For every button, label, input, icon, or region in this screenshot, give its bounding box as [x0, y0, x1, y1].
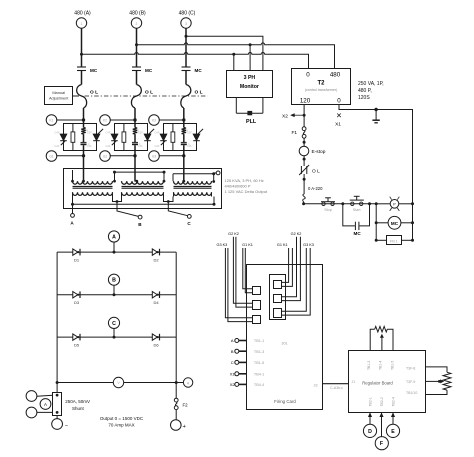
- 3 PH monitor box: [227, 71, 273, 98]
- overload element OL phase 1: [77, 85, 87, 109]
- wire G2 to bottom node: [110, 155, 135, 157]
- wire B stem: [113, 285, 115, 294]
- transformer T1 core 3: [174, 185, 212, 187]
- wire PLL left: [235, 97, 237, 113]
- svg-text:TB1-4: TB1-4: [379, 361, 383, 370]
- svg-text:B: B: [112, 278, 116, 284]
- svg-text:X2: X2: [282, 114, 288, 120]
- svg-text:G1 K1: G1 K1: [242, 243, 253, 247]
- wire left rail to shunt: [56, 383, 58, 393]
- wire bridge row C: [57, 336, 176, 338]
- wire shunt to negative terminal: [56, 415, 58, 419]
- wire E-stop to OL contact: [303, 156, 305, 166]
- svg-text:FN 1: FN 1: [390, 239, 398, 243]
- wire phase 3 drop from terminal: [185, 28, 187, 67]
- svg-text:G3 K3: G3 K3: [217, 243, 228, 247]
- svg-text:480 (A): 480 (A): [74, 11, 91, 17]
- wire MC coil row: [376, 222, 388, 224]
- wire phase 2 below SCR box: [134, 151, 136, 182]
- connector square left 3: [253, 316, 261, 324]
- wire T2 0 output to ground bus: [339, 105, 413, 241]
- svg-text:G1 K1: G1 K1: [277, 243, 288, 247]
- wire K3 to top node: [159, 119, 184, 121]
- wire pot wiper: [380, 335, 383, 351]
- node firing card input X2: [230, 382, 264, 387]
- node terminal C bridge input: [108, 317, 119, 328]
- wire ladder left rail: [375, 204, 377, 241]
- svg-text:G1: G1: [49, 155, 53, 159]
- svg-text:TB2-1: TB2-1: [368, 397, 372, 406]
- svg-text:Start: Start: [353, 208, 361, 212]
- label T2 specs: [358, 81, 384, 101]
- svg-text:0: 0: [337, 97, 341, 104]
- svg-text:K2: K2: [103, 119, 107, 123]
- node firing card input C: [231, 360, 264, 365]
- svg-text:D1: D1: [74, 258, 80, 263]
- svg-text:MC: MC: [195, 68, 203, 73]
- wire secondary output B: [117, 202, 138, 217]
- wire pot left post: [370, 329, 375, 351]
- svg-text:480 (C): 480 (C): [179, 11, 196, 17]
- transformer T1 core 2: [122, 185, 164, 187]
- firing card box: [247, 265, 323, 410]
- node shunt sense top: [26, 391, 53, 402]
- label output rating: [100, 416, 144, 427]
- svg-text:TB1-3: TB1-3: [367, 361, 371, 370]
- svg-text:440/480/600 P: 440/480/600 P: [225, 184, 251, 189]
- resistor R1b on main line: [81, 128, 85, 135]
- wire G1 K1 cathode lead left: [245, 248, 252, 293]
- node G3 terminal circle: [149, 151, 160, 162]
- wire G1 K1 cathode lead right: [282, 248, 293, 286]
- svg-text:D2: D2: [153, 258, 159, 263]
- svg-text:Monitor: Monitor: [240, 84, 259, 90]
- resistor R1a snubber: [71, 124, 75, 152]
- mechanical linkage dashed line: [85, 95, 208, 97]
- wire G3 to bottom node: [159, 155, 184, 157]
- svg-text:X1: X1: [335, 122, 341, 128]
- wire F1 to E-stop: [303, 138, 305, 146]
- svg-text:Output 0 = 1500 VDC: Output 0 = 1500 VDC: [100, 416, 144, 421]
- svg-text:C2F: C2F: [87, 144, 92, 148]
- node 480 (B) source terminal: [129, 11, 146, 29]
- svg-text:C2F: C2F: [138, 144, 143, 148]
- svg-text:J3: J3: [313, 384, 317, 388]
- svg-text:250 VA, 1P,: 250 VA, 1P,: [358, 81, 384, 87]
- wire G3 K3 cathode lead left: [228, 248, 253, 322]
- diode D6: [152, 334, 159, 348]
- meter V: [113, 377, 123, 387]
- node G1 terminal circle: [46, 151, 57, 162]
- wire secondary link U1-U2: [113, 197, 122, 202]
- wire A stem: [113, 242, 115, 252]
- svg-text:G2 K2: G2 K2: [291, 232, 302, 236]
- label X2 annotation arrow: [282, 114, 303, 120]
- wire FN1 row: [376, 239, 386, 241]
- node output negative: [52, 419, 68, 430]
- wire control rung: [304, 203, 377, 205]
- regulator board box: [349, 351, 426, 413]
- wire secondary output A: [72, 204, 74, 213]
- node terminal C transformer: [187, 215, 191, 219]
- fuse F2: [174, 398, 188, 409]
- wire bridge bottom row: [57, 382, 176, 384]
- wire bridge row A: [57, 251, 176, 253]
- wire primary link bar 1: [115, 171, 165, 173]
- pushbutton E-stop: [299, 146, 325, 156]
- contactor contact MC phase 2: [132, 67, 153, 73]
- bridge left rail: [56, 252, 58, 382]
- svg-text:G3: G3: [152, 155, 156, 159]
- svg-text:K3: K3: [152, 119, 156, 123]
- svg-text:G4F: G4F: [54, 144, 59, 148]
- wire F2 to positive terminal: [175, 410, 177, 420]
- svg-text:C4F: C4F: [106, 131, 111, 135]
- node K1 terminal circle: [46, 115, 57, 126]
- wire right rail to fuse F2: [175, 383, 177, 399]
- svg-text:3 PH: 3 PH: [244, 75, 256, 81]
- svg-text:480: 480: [330, 72, 341, 79]
- breaker contact on 120V line: [303, 194, 306, 204]
- transformer T1 secondary winding 3: [174, 192, 212, 195]
- SCR assembly box phase 2: [115, 124, 148, 151]
- svg-text:TB4-4: TB4-4: [254, 383, 264, 387]
- svg-text:A: A: [112, 235, 116, 241]
- shunt resistor: [53, 393, 62, 416]
- wire U1 left stub: [72, 170, 74, 181]
- transformer T1 primary winding 3: [174, 181, 212, 184]
- svg-text:TB1/10: TB1/10: [406, 391, 417, 395]
- svg-text:G4F: G4F: [154, 144, 159, 148]
- transformer T1 outer box: [64, 169, 222, 209]
- svg-text:125 KVA, 3 PH, 60 Hz: 125 KVA, 3 PH, 60 Hz: [225, 178, 264, 183]
- svg-text:TB1-1: TB1-1: [254, 339, 264, 343]
- wire G1 to bottom node: [57, 155, 84, 157]
- svg-text:D: D: [368, 429, 372, 435]
- resistor R3a snubber: [171, 124, 175, 152]
- wire phase 3 OL to SCR box: [183, 108, 185, 124]
- component PLL crystal: [247, 111, 252, 115]
- node transformer top-right terminal: [214, 172, 217, 174]
- wire G3 K3 cathode lead right: [282, 248, 311, 315]
- wire phase 3 MC to OL: [185, 71, 187, 85]
- svg-text:120S: 120S: [358, 95, 370, 101]
- wire G3 K3 gate lead right: [282, 248, 307, 311]
- connector square left 1: [253, 287, 261, 295]
- node terminal F: [375, 437, 388, 450]
- wire phase 2 MC to OL: [136, 71, 138, 85]
- wire K1 to top node: [57, 119, 84, 121]
- svg-text:TB1-3: TB1-3: [254, 350, 264, 354]
- svg-text:250A, 50mV: 250A, 50mV: [65, 399, 90, 404]
- wire G2 K2 cathode lead right: [282, 237, 301, 301]
- node firing card input B: [231, 349, 264, 354]
- wire ext pot wiper: [425, 380, 443, 383]
- wire linkage from manual adjustment: [73, 95, 79, 97]
- node terminal E: [386, 424, 399, 437]
- wire secondary link U2-U3: [164, 197, 174, 202]
- node terminal D: [363, 424, 376, 437]
- svg-text:A: A: [44, 402, 47, 407]
- svg-text:G2 K2: G2 K2: [228, 232, 239, 236]
- node terminal A bridge input: [108, 231, 119, 242]
- wire G1 K1 gate lead left: [243, 248, 253, 289]
- svg-text:0: 0: [306, 72, 310, 79]
- svg-text:T2: T2: [317, 81, 325, 87]
- svg-text:O L: O L: [312, 169, 320, 175]
- overload contact OL: [299, 165, 320, 175]
- label shunt: [65, 399, 90, 411]
- wire phase 1 OL to SCR box: [83, 108, 85, 124]
- resistor R2a snubber: [122, 124, 126, 152]
- fan FN 1: [387, 236, 402, 245]
- svg-text:F: F: [380, 441, 383, 447]
- transformer T1 core 1: [73, 185, 113, 187]
- node output positive: [171, 420, 187, 431]
- wire bridge row B: [57, 294, 176, 296]
- svg-text:MC: MC: [354, 231, 362, 236]
- overload element OL phase 2: [131, 85, 141, 109]
- label X1 terminal mark: [335, 114, 341, 128]
- ground symbol: [372, 108, 379, 123]
- svg-text:MC: MC: [145, 68, 153, 73]
- pushbutton Start: [350, 196, 364, 212]
- contactor coil MC: [388, 216, 401, 229]
- svg-text:0 A-220: 0 A-220: [308, 186, 323, 191]
- svg-text:G2F: G2F: [138, 131, 143, 135]
- wire secondary bus: [73, 203, 215, 205]
- manual adjustment box: [45, 87, 73, 105]
- transformer T1 secondary winding 2: [122, 192, 164, 195]
- svg-text:TB2-4: TB2-4: [391, 397, 395, 406]
- node shunt sense bottom: [26, 407, 53, 418]
- svg-text:C2F: C2F: [187, 144, 192, 148]
- junction dots transformer primaries: [71, 180, 74, 183]
- wire G1 K1 gate lead right: [282, 248, 289, 282]
- wire ext pot top lead: [425, 367, 447, 372]
- connector square inner 1: [274, 281, 282, 289]
- svg-text:Shunt: Shunt: [72, 406, 85, 411]
- node firing card input X1: [230, 372, 264, 377]
- connector housing box: [270, 275, 286, 320]
- node terminal B transformer: [138, 215, 142, 219]
- resistor R3b on main line: [182, 128, 186, 135]
- svg-text:D6: D6: [153, 343, 159, 348]
- diode D1: [73, 249, 80, 263]
- node K3 terminal circle: [149, 115, 160, 126]
- svg-text:A: A: [231, 338, 234, 343]
- node terminal B bridge input: [108, 274, 119, 285]
- wire pot right post: [387, 329, 393, 351]
- fuse F1: [292, 127, 307, 138]
- svg-text:G4F: G4F: [105, 144, 110, 148]
- svg-text:480 P,: 480 P,: [358, 88, 372, 94]
- svg-text:MC: MC: [391, 221, 399, 226]
- connector square inner 2: [274, 295, 282, 303]
- svg-text:E: E: [391, 429, 395, 435]
- svg-text:O L: O L: [195, 90, 203, 96]
- label transformer specs: [225, 178, 269, 194]
- wire phase 3 below SCR box: [183, 151, 185, 182]
- pilot light P: [390, 197, 400, 211]
- svg-text:D3: D3: [74, 300, 80, 305]
- svg-text:Firing Card: Firing Card: [274, 399, 296, 404]
- contactor contact MC phase 3: [182, 67, 203, 73]
- svg-text:O L: O L: [90, 90, 98, 96]
- svg-text:TB1-5: TB1-5: [391, 361, 395, 370]
- potentiometer external: [443, 372, 451, 390]
- svg-text:O L: O L: [145, 90, 153, 96]
- svg-text:PLL: PLL: [246, 119, 257, 125]
- svg-text:T3F-9: T3F-9: [406, 380, 415, 384]
- thyristor SCR3a: [154, 131, 166, 149]
- svg-text:V: V: [117, 381, 120, 385]
- transformer T1 secondary winding 1: [73, 192, 113, 195]
- wire PLL bottom: [236, 112, 263, 114]
- diode D5: [73, 334, 80, 348]
- svg-text:C-A3b,c: C-A3b,c: [330, 386, 343, 390]
- svg-text:G2F: G2F: [187, 131, 192, 135]
- node firing card input A: [231, 338, 264, 343]
- wire OL contact down: [303, 174, 305, 194]
- wire line from phase A to T2 0 terminal: [82, 52, 309, 68]
- svg-text:G3 K3: G3 K3: [303, 243, 314, 247]
- wire regulator output D: [368, 413, 371, 425]
- wire phase 2 OL to SCR box: [134, 108, 136, 124]
- potentiometer on regulator top: [375, 326, 388, 332]
- wire monitor input 1: [233, 54, 235, 70]
- svg-text:C4F: C4F: [55, 131, 60, 135]
- svg-text:Regulator Board: Regulator Board: [362, 381, 393, 386]
- thyristor SCR2a: [105, 131, 117, 149]
- svg-text:−: −: [65, 423, 68, 429]
- wire monitor input 2: [249, 45, 251, 71]
- wire phase 1 drop from terminal: [81, 28, 83, 67]
- thyristor SCR1a: [54, 131, 66, 149]
- svg-text:T3F-8: T3F-8: [406, 367, 415, 371]
- wire PLL right: [262, 97, 264, 113]
- svg-text:G2: G2: [103, 155, 107, 159]
- wire secondary output C: [168, 202, 187, 216]
- svg-text:E-stop: E-stop: [312, 149, 326, 155]
- svg-text:D4: D4: [153, 300, 159, 305]
- thyristor SCR3b: [187, 129, 203, 148]
- diode D2: [152, 249, 159, 263]
- transformer T1 primary winding 2: [122, 181, 164, 184]
- svg-text:G2F: G2F: [87, 131, 92, 135]
- wire regulator output E: [391, 413, 394, 425]
- wire line from phase C to monitor (top bus): [186, 36, 263, 70]
- thyristor SCR1b: [87, 129, 103, 148]
- svg-text:(control transformer): (control transformer): [305, 88, 338, 92]
- wire C stem: [113, 329, 115, 338]
- contactor contact MC phase 1: [77, 67, 98, 73]
- contact MC auxiliary: [354, 222, 362, 236]
- wire ext pot bottom lead: [425, 390, 447, 394]
- thyristor SCR2b: [138, 129, 154, 148]
- SCR assembly box phase 1: [64, 124, 97, 151]
- wire line from phase B to T2 480 terminal: [137, 43, 335, 69]
- wire regulator output F: [380, 413, 383, 437]
- svg-text:2: 2: [136, 22, 138, 26]
- node K2 terminal circle: [100, 115, 111, 126]
- wire G2 K2 cathode lead left: [236, 237, 253, 307]
- pushbutton Stop: [321, 198, 335, 212]
- wire K2 to top node: [110, 119, 135, 121]
- wire MC holding branch: [343, 204, 370, 226]
- svg-text:F1: F1: [292, 130, 298, 136]
- bridge right rail: [175, 252, 177, 382]
- node G2 terminal circle: [100, 151, 111, 162]
- svg-text:1: 1: [81, 22, 83, 26]
- svg-text:J1: J1: [352, 380, 356, 384]
- wire firing card to regulator: [323, 383, 349, 385]
- svg-text:301: 301: [281, 341, 287, 345]
- connector square left 2: [253, 301, 261, 310]
- node terminal A transformer: [71, 214, 75, 218]
- svg-text:120: 120: [300, 97, 311, 104]
- svg-text:B: B: [231, 349, 234, 354]
- svg-text:480 (B): 480 (B): [129, 11, 146, 17]
- svg-text:K1: K1: [50, 119, 54, 123]
- wire G2 K2 gate lead left: [233, 237, 252, 304]
- capacitor C1 snubber: [81, 129, 90, 151]
- svg-text:F2: F2: [183, 403, 189, 408]
- svg-text:TB2-2: TB2-2: [380, 397, 384, 406]
- overload element OL phase 3: [181, 85, 191, 109]
- svg-text:70 Amp MAX: 70 Amp MAX: [108, 422, 134, 427]
- capacitor C2 snubber: [132, 129, 141, 151]
- SCR assembly box phase 3: [164, 124, 197, 151]
- wire T2 120 output down: [303, 105, 305, 127]
- svg-text:TB1-5: TB1-5: [254, 361, 264, 365]
- wire pilot row: [376, 203, 390, 205]
- svg-text:C: C: [231, 360, 234, 365]
- svg-text:Stop: Stop: [324, 208, 332, 212]
- diode D4: [152, 291, 159, 305]
- meter A shunt: [40, 399, 51, 410]
- node 480 (A) source terminal: [74, 11, 91, 29]
- transformer T1 primary winding 1: [73, 181, 113, 184]
- svg-text:C4F: C4F: [155, 131, 160, 135]
- node 480 (C) source terminal: [179, 11, 196, 29]
- capacitor C3 snubber: [181, 129, 190, 151]
- resistor R2b on main line: [133, 128, 137, 135]
- svg-text:MC: MC: [90, 68, 98, 73]
- svg-text:D5: D5: [74, 343, 80, 348]
- svg-text:TB4-1: TB4-1: [254, 372, 264, 376]
- wire phase 2 drop from terminal: [136, 28, 138, 67]
- wire phase 1 MC to OL: [81, 71, 83, 85]
- connector square inner 3: [274, 309, 282, 318]
- wire G2 K2 gate lead right: [282, 237, 297, 297]
- svg-text:C: C: [112, 321, 116, 327]
- wire primary link bar 2: [173, 173, 214, 175]
- diode D3: [73, 291, 80, 305]
- node test point right: [176, 378, 193, 387]
- transformer T2 box: [292, 69, 351, 105]
- svg-text:1 125 VAC Delta Output: 1 125 VAC Delta Output: [225, 189, 269, 194]
- svg-text:Adjustment: Adjustment: [49, 95, 69, 100]
- wire phase 1 below SCR box: [83, 151, 85, 182]
- wire G3 K3 gate lead left: [225, 248, 252, 318]
- svg-text:3: 3: [185, 22, 187, 26]
